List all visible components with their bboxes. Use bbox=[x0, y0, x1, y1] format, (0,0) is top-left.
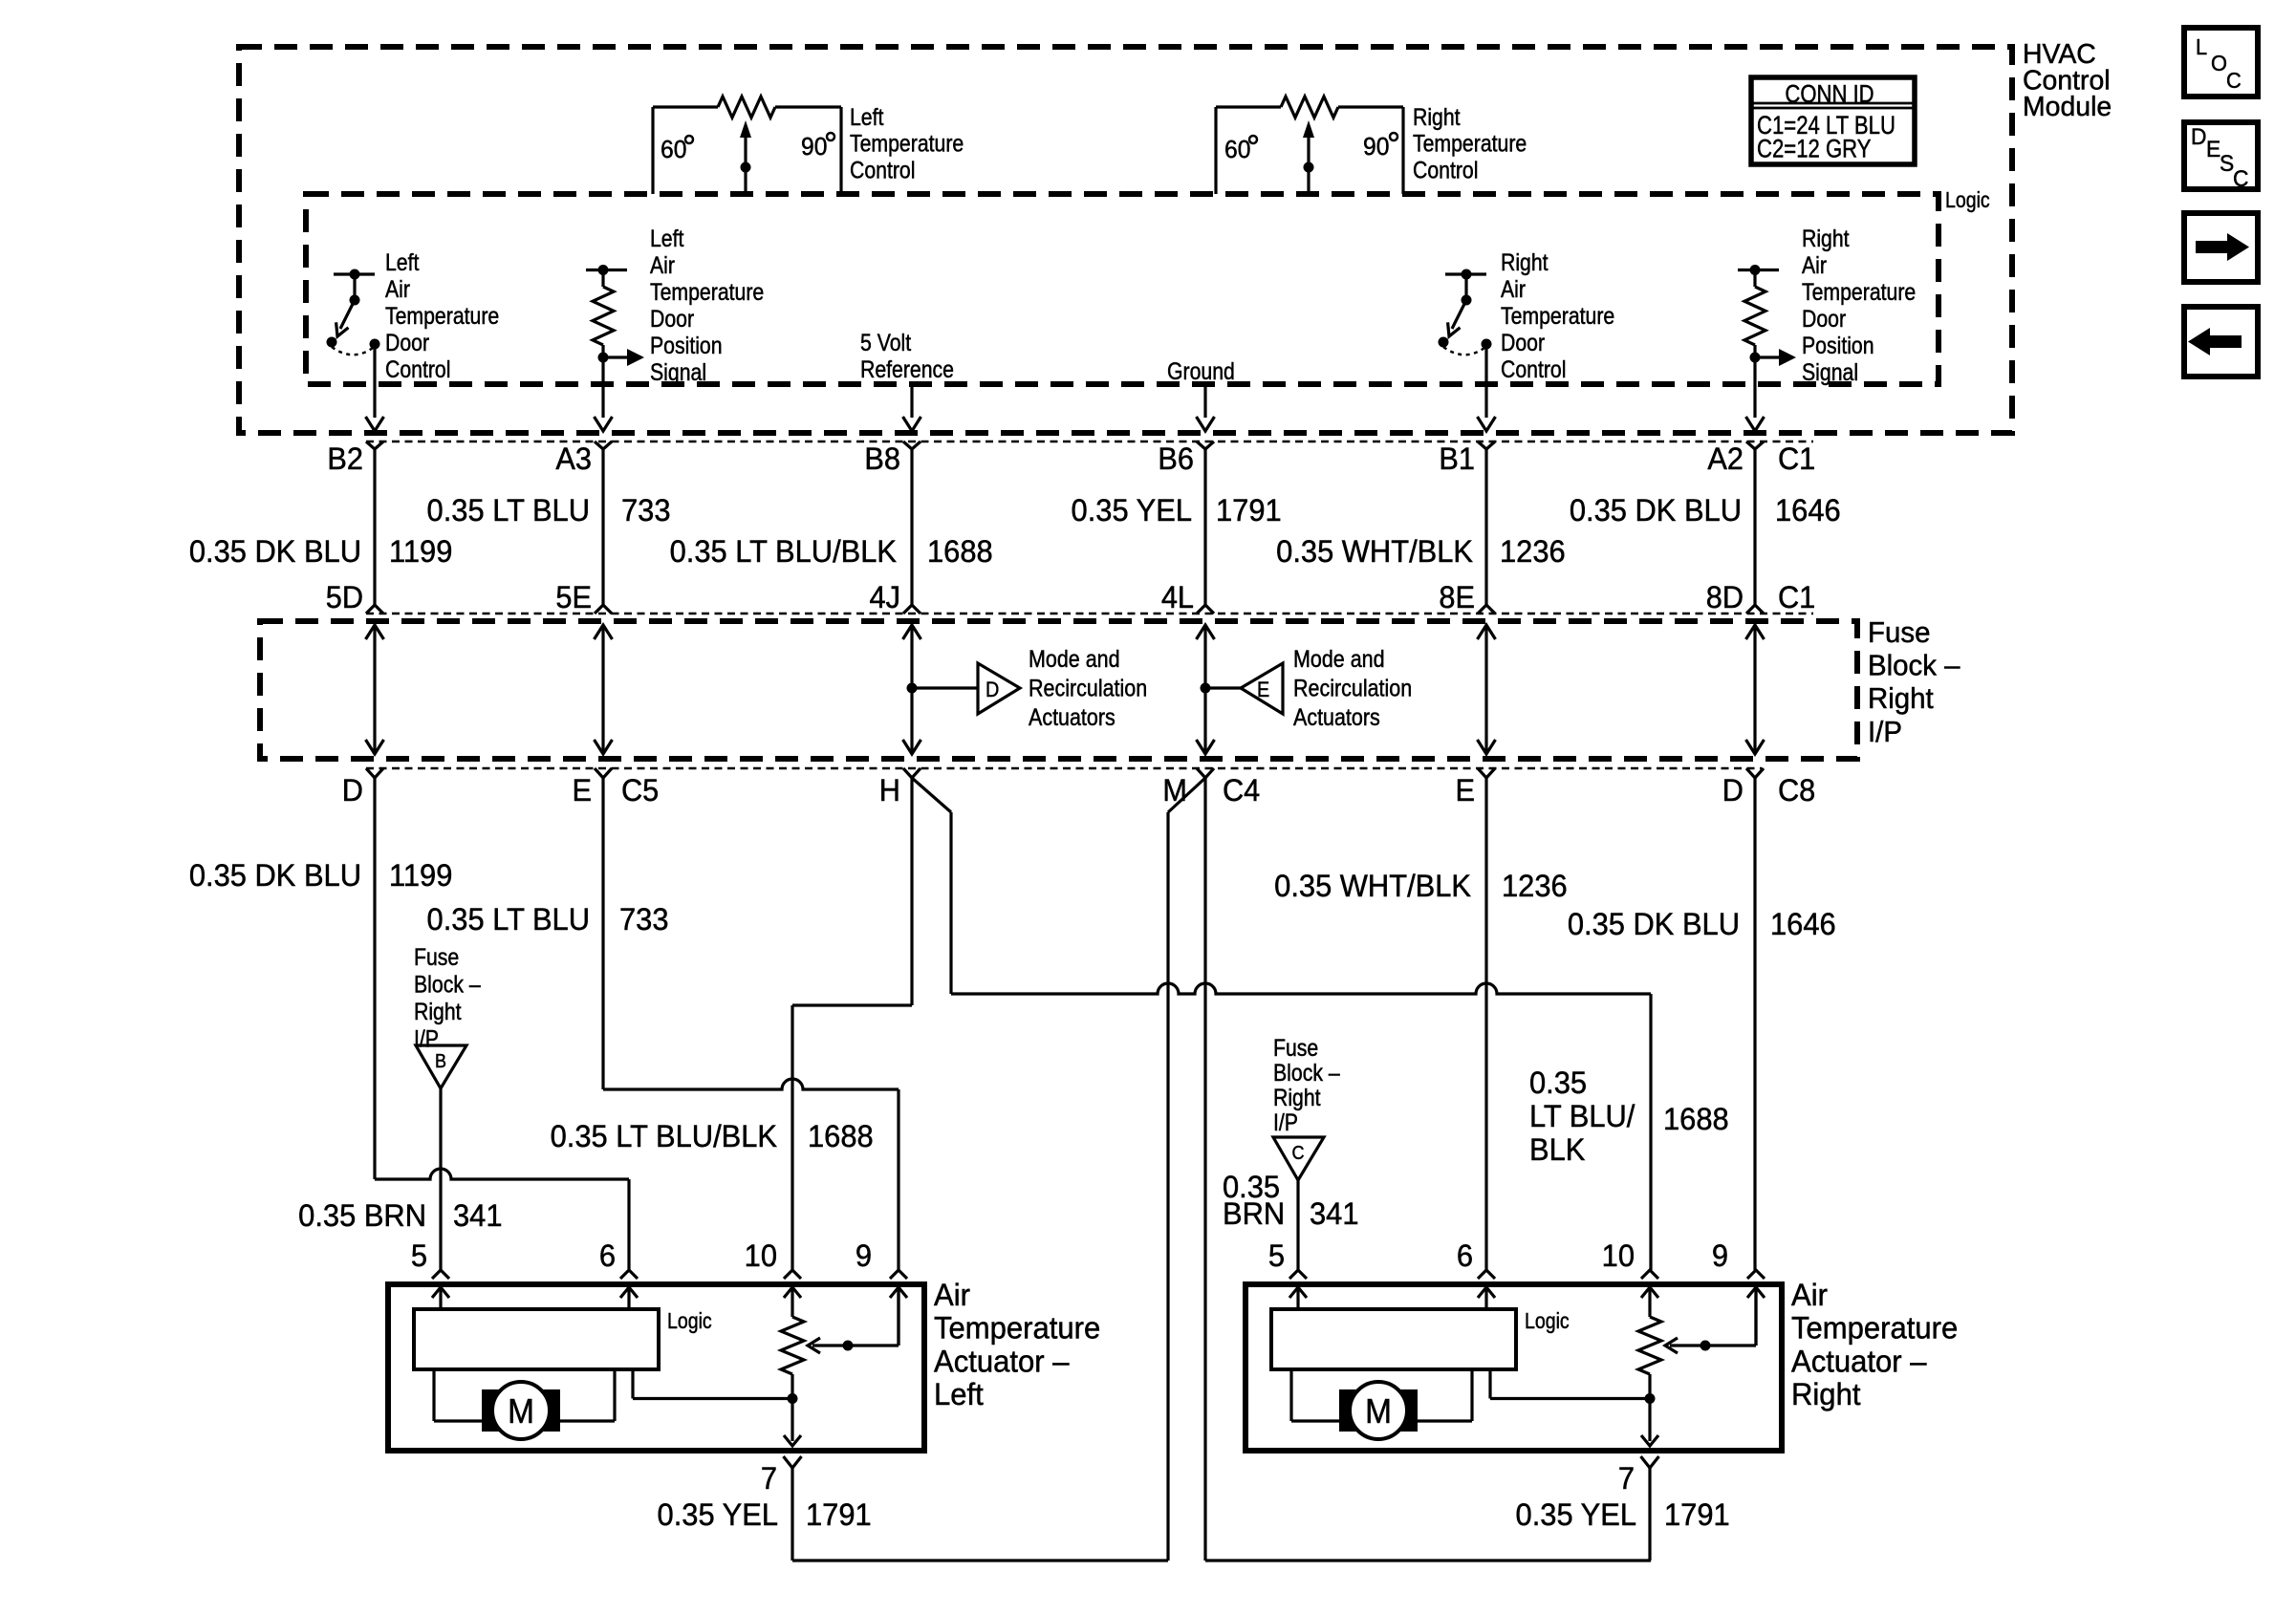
svg-text:Right: Right bbox=[1868, 683, 1934, 716]
svg-text:7: 7 bbox=[761, 1460, 777, 1496]
svg-text:Logic: Logic bbox=[1945, 188, 1990, 213]
svg-text:1791: 1791 bbox=[1664, 1497, 1730, 1532]
svg-text:E: E bbox=[2206, 136, 2220, 161]
svg-text:0.35 LT BLU/BLK: 0.35 LT BLU/BLK bbox=[551, 1118, 777, 1153]
svg-text:Fuse: Fuse bbox=[1273, 1034, 1318, 1061]
svg-text:D: D bbox=[986, 678, 999, 701]
svg-text:0.35 DK BLU: 0.35 DK BLU bbox=[1570, 492, 1742, 528]
svg-text:0.35 YEL: 0.35 YEL bbox=[1516, 1497, 1636, 1532]
svg-text:1791: 1791 bbox=[806, 1497, 872, 1532]
svg-text:LT BLU/: LT BLU/ bbox=[1529, 1098, 1635, 1133]
svg-text:Recirculation: Recirculation bbox=[1293, 675, 1412, 701]
svg-text:9: 9 bbox=[1712, 1238, 1728, 1273]
svg-text:B8: B8 bbox=[864, 441, 900, 476]
svg-text:C1: C1 bbox=[1778, 580, 1815, 614]
svg-text:1199: 1199 bbox=[389, 533, 452, 569]
svg-text:Temperature: Temperature bbox=[650, 278, 764, 305]
svg-text:Right: Right bbox=[1791, 1377, 1861, 1412]
svg-text:C1: C1 bbox=[1778, 441, 1815, 476]
svg-text:60: 60 bbox=[1224, 136, 1250, 163]
svg-text:Temperature: Temperature bbox=[850, 130, 964, 157]
svg-text:Temperature: Temperature bbox=[1802, 278, 1916, 305]
svg-text:Air: Air bbox=[385, 275, 410, 302]
svg-text:Logic: Logic bbox=[667, 1309, 712, 1334]
svg-text:8D: 8D bbox=[1706, 580, 1744, 614]
svg-text:Temperature: Temperature bbox=[1501, 302, 1614, 329]
svg-text:S: S bbox=[2220, 150, 2234, 176]
svg-text:0.35 YEL: 0.35 YEL bbox=[658, 1497, 778, 1532]
svg-text:Ground: Ground bbox=[1167, 357, 1235, 384]
svg-text:733: 733 bbox=[621, 492, 671, 528]
svg-text:Door: Door bbox=[1802, 305, 1846, 332]
svg-text:Signal: Signal bbox=[650, 358, 706, 385]
svg-text:Left: Left bbox=[934, 1377, 984, 1412]
svg-text:10: 10 bbox=[745, 1238, 777, 1273]
svg-text:90: 90 bbox=[1363, 133, 1389, 161]
svg-text:1236: 1236 bbox=[1502, 868, 1568, 903]
svg-text:1646: 1646 bbox=[1775, 492, 1841, 528]
svg-text:0.35 LT BLU/BLK: 0.35 LT BLU/BLK bbox=[670, 533, 897, 569]
svg-text:8E: 8E bbox=[1439, 580, 1475, 614]
svg-text:6: 6 bbox=[1457, 1238, 1473, 1273]
svg-text:6: 6 bbox=[599, 1238, 616, 1273]
svg-text:0.35 LT BLU: 0.35 LT BLU bbox=[427, 901, 590, 937]
svg-text:1791: 1791 bbox=[1216, 492, 1282, 528]
svg-text:341: 341 bbox=[453, 1197, 503, 1233]
svg-text:C4: C4 bbox=[1223, 773, 1260, 807]
svg-text:Air: Air bbox=[934, 1278, 970, 1313]
svg-text:1688: 1688 bbox=[1663, 1101, 1729, 1136]
svg-text:733: 733 bbox=[619, 901, 669, 937]
svg-text:5D: 5D bbox=[326, 580, 363, 614]
svg-text:0.35 YEL: 0.35 YEL bbox=[1072, 492, 1192, 528]
svg-text:Air: Air bbox=[1501, 275, 1526, 302]
svg-text:4J: 4J bbox=[870, 580, 900, 614]
svg-text:Reference: Reference bbox=[860, 355, 954, 382]
svg-text:Block –: Block – bbox=[1273, 1059, 1340, 1086]
svg-text:C: C bbox=[2226, 68, 2242, 93]
svg-text:5E: 5E bbox=[555, 580, 592, 614]
svg-text:M: M bbox=[1162, 773, 1187, 807]
svg-text:M: M bbox=[508, 1393, 534, 1431]
svg-text:1646: 1646 bbox=[1770, 906, 1836, 941]
svg-text:1236: 1236 bbox=[1500, 533, 1566, 569]
svg-text:Block –: Block – bbox=[1868, 650, 1960, 682]
svg-text:D: D bbox=[342, 773, 363, 807]
svg-text:Position: Position bbox=[650, 332, 723, 358]
svg-text:A3: A3 bbox=[555, 441, 592, 476]
svg-text:C: C bbox=[2233, 165, 2248, 191]
svg-text:Left: Left bbox=[650, 225, 684, 251]
svg-text:M: M bbox=[1365, 1393, 1392, 1431]
svg-text:Mode and: Mode and bbox=[1293, 645, 1385, 672]
svg-text:Door: Door bbox=[385, 329, 429, 355]
svg-text:C8: C8 bbox=[1778, 773, 1815, 807]
svg-text:Right: Right bbox=[1413, 103, 1461, 130]
svg-text:A2: A2 bbox=[1707, 441, 1744, 476]
svg-text:C5: C5 bbox=[621, 773, 659, 807]
svg-text:5 Volt: 5 Volt bbox=[860, 329, 912, 355]
svg-text:Actuators: Actuators bbox=[1293, 703, 1380, 730]
svg-text:5: 5 bbox=[411, 1238, 427, 1273]
svg-text:Actuator –: Actuator – bbox=[1791, 1344, 1927, 1379]
svg-text:0.35 LT BLU: 0.35 LT BLU bbox=[427, 492, 590, 528]
svg-text:Actuator –: Actuator – bbox=[934, 1344, 1070, 1379]
svg-text:Control: Control bbox=[385, 355, 450, 382]
svg-text:0.35 DK BLU: 0.35 DK BLU bbox=[1568, 906, 1740, 941]
svg-text:Fuse: Fuse bbox=[414, 943, 459, 970]
svg-text:1688: 1688 bbox=[927, 533, 993, 569]
svg-text:L: L bbox=[2196, 34, 2207, 59]
svg-text:0.35 BRN: 0.35 BRN bbox=[298, 1197, 426, 1233]
svg-text:E: E bbox=[1257, 678, 1269, 701]
svg-text:Control: Control bbox=[850, 157, 915, 183]
svg-text:Right: Right bbox=[1273, 1084, 1321, 1110]
svg-text:B2: B2 bbox=[327, 441, 363, 476]
svg-text:Module: Module bbox=[2023, 92, 2112, 122]
svg-text:E: E bbox=[573, 773, 592, 807]
svg-text:Actuators: Actuators bbox=[1029, 703, 1116, 730]
svg-text:Position: Position bbox=[1802, 332, 1874, 358]
svg-text:Recirculation: Recirculation bbox=[1029, 675, 1147, 701]
svg-text:B: B bbox=[435, 1051, 446, 1072]
svg-text:I/P: I/P bbox=[1868, 716, 1902, 748]
svg-text:Air: Air bbox=[650, 251, 675, 278]
svg-text:Control: Control bbox=[1413, 157, 1478, 183]
svg-text:B1: B1 bbox=[1439, 441, 1475, 476]
svg-text:E: E bbox=[1456, 773, 1475, 807]
svg-text:I/P: I/P bbox=[1273, 1109, 1298, 1135]
svg-text:9: 9 bbox=[856, 1238, 872, 1273]
svg-text:1199: 1199 bbox=[389, 857, 452, 893]
svg-text:Right: Right bbox=[1501, 248, 1549, 275]
svg-text:5: 5 bbox=[1268, 1238, 1285, 1273]
svg-text:341: 341 bbox=[1310, 1195, 1359, 1231]
svg-text:C2=12 GRY: C2=12 GRY bbox=[1757, 136, 1872, 164]
svg-text:0.35 DK BLU: 0.35 DK BLU bbox=[189, 533, 361, 569]
svg-text:Temperature: Temperature bbox=[1413, 130, 1527, 157]
svg-text:Door: Door bbox=[1501, 329, 1545, 355]
svg-text:D: D bbox=[1722, 773, 1744, 807]
svg-text:Mode and: Mode and bbox=[1029, 645, 1120, 672]
svg-text:10: 10 bbox=[1602, 1238, 1635, 1273]
svg-text:0.35 WHT/BLK: 0.35 WHT/BLK bbox=[1274, 868, 1471, 903]
svg-text:CONN ID: CONN ID bbox=[1785, 80, 1874, 108]
svg-text:Left: Left bbox=[850, 103, 884, 130]
svg-text:Block –: Block – bbox=[414, 971, 481, 998]
svg-text:0.35 WHT/BLK: 0.35 WHT/BLK bbox=[1276, 533, 1473, 569]
svg-text:0.35: 0.35 bbox=[1529, 1065, 1587, 1100]
svg-text:B6: B6 bbox=[1158, 441, 1194, 476]
svg-text:O: O bbox=[2211, 51, 2227, 75]
svg-text:7: 7 bbox=[1618, 1460, 1635, 1496]
svg-text:Temperature: Temperature bbox=[934, 1310, 1100, 1346]
svg-text:Temperature: Temperature bbox=[1791, 1310, 1958, 1346]
svg-text:4L: 4L bbox=[1161, 580, 1194, 614]
svg-text:Control: Control bbox=[1501, 355, 1566, 382]
svg-text:Fuse: Fuse bbox=[1868, 616, 1930, 649]
svg-text:Door: Door bbox=[650, 305, 694, 332]
svg-text:Air: Air bbox=[1791, 1278, 1828, 1313]
svg-text:C: C bbox=[1292, 1143, 1305, 1164]
svg-text:0.35 DK BLU: 0.35 DK BLU bbox=[189, 857, 361, 893]
svg-text:Right: Right bbox=[1802, 225, 1850, 251]
svg-text:90: 90 bbox=[801, 133, 827, 161]
svg-text:60: 60 bbox=[661, 136, 686, 163]
svg-text:H: H bbox=[879, 773, 900, 807]
svg-text:Temperature: Temperature bbox=[385, 302, 499, 329]
svg-text:BRN: BRN bbox=[1223, 1195, 1285, 1231]
svg-text:BLK: BLK bbox=[1529, 1131, 1585, 1167]
svg-text:Logic: Logic bbox=[1525, 1309, 1570, 1334]
svg-text:D: D bbox=[2191, 123, 2206, 149]
svg-text:Air: Air bbox=[1802, 251, 1827, 278]
svg-text:Left: Left bbox=[385, 248, 420, 275]
svg-text:Right: Right bbox=[414, 998, 462, 1024]
svg-text:1688: 1688 bbox=[808, 1118, 874, 1153]
svg-text:Signal: Signal bbox=[1802, 358, 1858, 385]
